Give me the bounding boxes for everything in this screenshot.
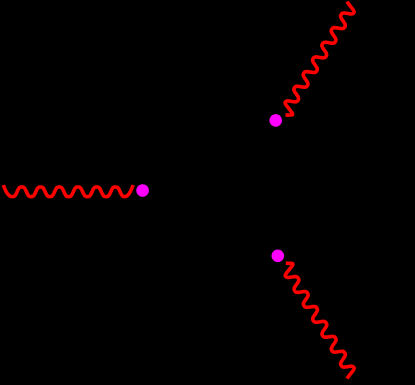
vertex blob left xyxy=(136,184,149,197)
wavy photon line lower-right xyxy=(285,263,354,378)
vertex blob lower-right xyxy=(272,250,285,263)
wavy photon line upper-right xyxy=(285,2,354,116)
wavy photon line left xyxy=(3,185,133,197)
vertex blob upper-right xyxy=(269,114,282,127)
